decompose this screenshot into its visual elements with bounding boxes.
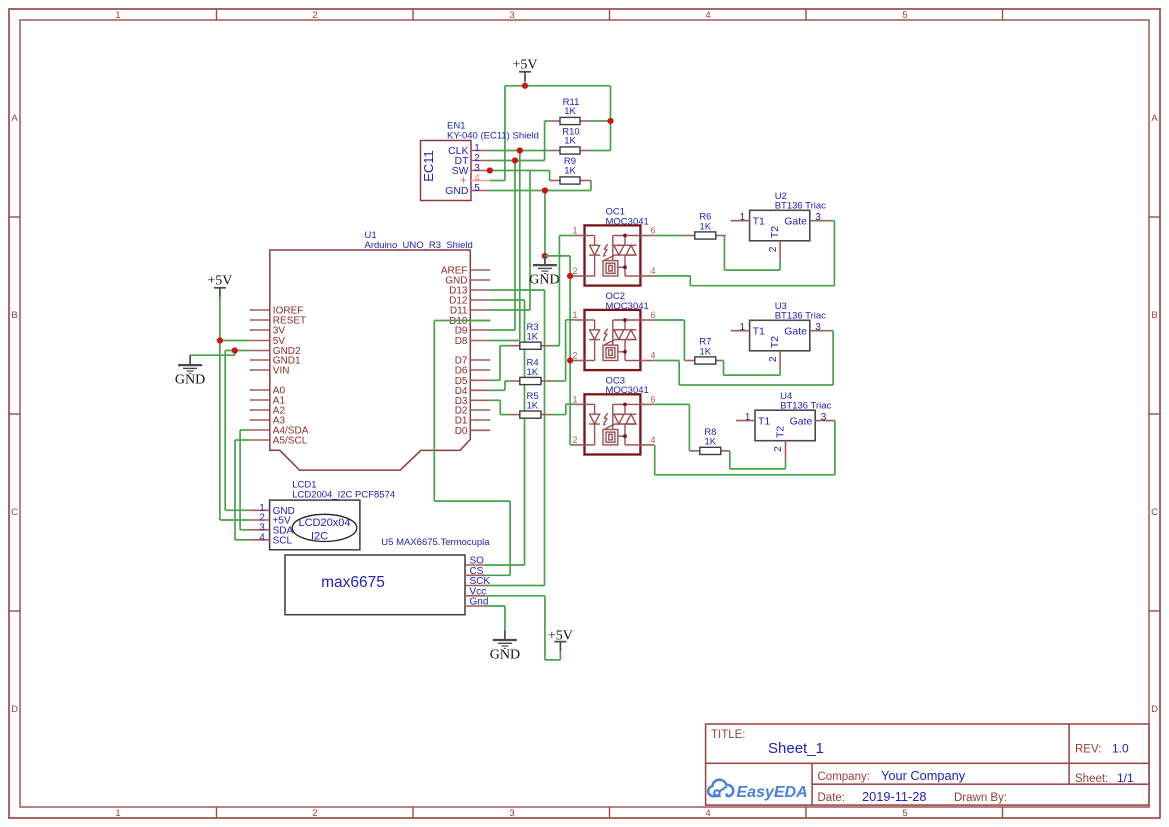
svg-text:+5V: +5V — [512, 58, 537, 73]
junction dot OC2 pin2 — [567, 357, 573, 363]
wire Gnd to ground — [485, 606, 505, 631]
junction dot OC1 pin2 — [567, 273, 573, 279]
svg-text:4: 4 — [651, 266, 656, 276]
svg-text:GND: GND — [529, 273, 559, 288]
svg-text:1K: 1K — [564, 136, 576, 147]
OC3 pin numbers — [573, 394, 656, 445]
svg-text:GND: GND — [490, 648, 520, 663]
svg-text:D0: D0 — [455, 426, 468, 437]
wire A5/SCL to LCD — [235, 440, 250, 540]
wire OC1 pin6 to R6 — [654, 235, 685, 237]
svg-text:5: 5 — [474, 183, 480, 194]
svg-text:4: 4 — [705, 10, 710, 21]
wire CLK row to R10 — [490, 151, 550, 341]
svg-text:C: C — [11, 507, 18, 518]
svg-text:Drawn By:: Drawn By: — [954, 792, 1007, 804]
svg-text:1K: 1K — [699, 346, 711, 357]
wire OC3 pin4 to U4 gate — [655, 421, 835, 475]
svg-text:3: 3 — [509, 808, 514, 819]
ground symbol (bottom) — [490, 631, 520, 663]
wire OC2 pin6 to R7 — [654, 320, 684, 361]
title block frame — [706, 724, 1149, 805]
svg-text:1K: 1K — [564, 166, 576, 177]
EC11 pin numbers — [474, 143, 480, 194]
resistor R4 — [510, 377, 566, 384]
triac U3 BT136 — [731, 320, 830, 369]
svg-text:1K: 1K — [564, 106, 576, 117]
svg-text:EC11: EC11 — [421, 150, 436, 182]
resistor R10 — [550, 147, 611, 154]
svg-text:Arduino_UNO_R3_Shield: Arduino_UNO_R3_Shield — [365, 240, 473, 251]
svg-text:4: 4 — [259, 532, 265, 543]
optocoupler OC1 MOC3041 — [575, 225, 655, 285]
power +5V symbol (left of U1) — [207, 274, 232, 298]
svg-text:1K: 1K — [527, 401, 539, 412]
svg-text:T2: T2 — [769, 336, 781, 348]
junction dot 5V pin — [217, 337, 223, 343]
svg-text:1K: 1K — [527, 332, 539, 343]
svg-text:4: 4 — [705, 808, 710, 819]
optocoupler OC3 MOC3041 — [575, 394, 655, 454]
LCD1 ellipse — [292, 514, 357, 541]
svg-text:LCD20x04: LCD20x04 — [299, 517, 351, 529]
svg-text:REV:: REV: — [1075, 744, 1101, 756]
svg-text:C: C — [1151, 507, 1158, 518]
svg-text:GND: GND — [175, 373, 205, 388]
svg-text:2: 2 — [573, 351, 578, 361]
svg-text:TITLE:: TITLE: — [711, 729, 746, 741]
U1 right pin stubs — [470, 270, 490, 430]
svg-text:2: 2 — [573, 435, 578, 445]
wire R4 to OC2 pin1 — [566, 320, 575, 381]
svg-text:1/1: 1/1 — [1117, 771, 1134, 785]
svg-text:Your Company: Your Company — [881, 768, 966, 783]
junction dot EC11 GND — [542, 187, 548, 193]
svg-text:Sheet:: Sheet: — [1075, 773, 1108, 785]
wire SW row to R9 — [490, 171, 550, 311]
svg-text:MOC3041: MOC3041 — [606, 385, 649, 396]
svg-text:Date:: Date: — [818, 792, 846, 804]
wire A4/SDA to LCD — [240, 430, 250, 530]
ground symbol (left of U1) — [175, 355, 205, 387]
component LCD1 box — [270, 500, 360, 550]
wire R8 to U4 T2 — [730, 451, 786, 469]
svg-text:4: 4 — [651, 435, 656, 445]
wire EC11 GND row — [490, 181, 591, 256]
svg-text:1: 1 — [740, 322, 746, 333]
U5 pin stubs — [465, 565, 485, 606]
svg-text:BT136 Triac: BT136 Triac — [780, 401, 831, 412]
wire CS row — [485, 574, 510, 576]
svg-text:1: 1 — [740, 212, 746, 223]
wire R3 to OC1 pin1 — [559, 236, 574, 346]
wire R6 to U2 T2 — [724, 236, 780, 271]
frame column ticks bottom — [217, 807, 1003, 818]
wire Vcc to +5V — [485, 596, 560, 660]
svg-text:1K: 1K — [699, 221, 711, 232]
svg-text:I2C: I2C — [311, 531, 328, 543]
wire SCK row — [485, 585, 545, 587]
wire R5 to OC3 pin1 — [566, 404, 575, 414]
svg-text:D11: D11 — [450, 306, 468, 317]
resistor R3 — [510, 342, 560, 349]
junction dot +5V rail — [522, 83, 528, 89]
svg-text:2: 2 — [312, 10, 317, 21]
svg-text:Gate: Gate — [790, 416, 813, 428]
svg-text:6: 6 — [651, 226, 656, 236]
frame row letters left — [11, 113, 18, 715]
resistor R6 — [685, 232, 726, 239]
wire OC3 pin6 to R8 — [654, 404, 689, 451]
svg-text:2: 2 — [573, 266, 578, 276]
svg-text:Sheet_1: Sheet_1 — [768, 740, 824, 757]
EC11 pin stubs — [471, 151, 490, 191]
svg-text:BT136 Triac: BT136 Triac — [775, 201, 826, 212]
junction dot SW — [487, 167, 493, 173]
svg-text:2019-11-28: 2019-11-28 — [862, 789, 927, 804]
U1 left pin names — [273, 306, 309, 447]
svg-text:3: 3 — [509, 10, 514, 21]
svg-text:EasyEDA: EasyEDA — [737, 784, 808, 801]
svg-text:U5 MAX6675.Termocupla: U5 MAX6675.Termocupla — [381, 537, 490, 548]
wire D5 to R3 — [490, 346, 510, 381]
svg-text:3: 3 — [821, 412, 827, 423]
svg-text:D9: D9 — [455, 326, 468, 337]
frame row ticks right — [1149, 217, 1160, 611]
svg-text:3: 3 — [815, 212, 821, 223]
svg-text:MOC3041: MOC3041 — [606, 301, 649, 312]
svg-text:A5/SCL: A5/SCL — [273, 436, 308, 447]
triac U4 BT136 — [736, 410, 835, 459]
frame column ticks top — [217, 9, 1003, 20]
wire SO row — [485, 564, 525, 566]
resistor R7 — [684, 357, 723, 364]
frame row ticks left — [9, 217, 20, 611]
U1 right pin names — [441, 266, 468, 437]
junction dot CLK — [517, 147, 523, 153]
svg-text:5: 5 — [902, 808, 907, 819]
svg-text:2: 2 — [773, 446, 784, 452]
junction dot R11 right — [607, 118, 613, 124]
svg-text:1K: 1K — [527, 367, 539, 378]
svg-text:1: 1 — [745, 412, 751, 423]
wire D10 to CS — [434, 321, 510, 576]
ground symbol (near OC1) — [529, 256, 559, 288]
wire D3 to R5 — [490, 400, 510, 414]
wire GND2 net — [190, 351, 250, 511]
svg-text:GND: GND — [445, 185, 469, 197]
svg-text:+5V: +5V — [207, 274, 232, 289]
junction dot DT — [512, 157, 518, 163]
triac U2 BT136 — [731, 210, 830, 259]
svg-text:D: D — [1151, 704, 1158, 715]
optocoupler OC2 MOC3041 — [575, 310, 655, 370]
OC1 pin numbers — [573, 226, 656, 277]
wire D13 to SCK — [490, 290, 544, 586]
svg-text:B: B — [11, 310, 17, 321]
svg-text:T2: T2 — [775, 426, 787, 438]
resistor R9 — [550, 177, 591, 184]
frame row letters right — [1151, 113, 1158, 715]
svg-text:D: D — [11, 704, 18, 715]
svg-text:T1: T1 — [753, 326, 765, 338]
svg-text:Gate: Gate — [784, 216, 807, 228]
svg-text:3: 3 — [815, 322, 821, 333]
resistor R11 — [545, 117, 611, 124]
wire D4 to R4 — [490, 381, 510, 390]
wire +5V left rail down to LCD — [220, 297, 250, 520]
svg-text:1: 1 — [573, 226, 578, 236]
svg-text:1K: 1K — [704, 437, 716, 448]
wire DT row to R11 vertical — [490, 121, 545, 330]
svg-text:1: 1 — [115, 10, 120, 21]
svg-text:T2: T2 — [769, 226, 781, 238]
OC2 pin numbers — [573, 310, 656, 361]
svg-text:T1: T1 — [753, 216, 765, 228]
svg-text:A: A — [1151, 113, 1158, 124]
svg-text:MOC3041: MOC3041 — [606, 216, 649, 227]
wire R7 to U3 T2 — [724, 361, 781, 376]
svg-text:VIN: VIN — [273, 366, 290, 377]
frame column numbers top — [115, 10, 907, 21]
LCD1 pin numbers — [259, 503, 265, 544]
svg-text:2: 2 — [768, 356, 779, 362]
svg-text:BT136 Triac: BT136 Triac — [775, 311, 826, 322]
wire OC2 pin4 to U3 gate — [654, 331, 833, 385]
resistor R8 — [689, 447, 729, 454]
junction dot GND rail top — [542, 253, 548, 259]
svg-text:3V: 3V — [273, 326, 286, 337]
wire D12 to SO — [490, 300, 524, 565]
EC11 pin 4 stub (highlighted) — [471, 180, 490, 182]
wire OC1 pin4 to U2 gate — [654, 221, 834, 286]
power +5V symbol (top, above encoder) — [512, 58, 537, 82]
svg-text:6: 6 — [651, 310, 656, 320]
svg-text:A: A — [11, 113, 18, 124]
svg-text:KY-040 (EC11) Shield: KY-040 (EC11) Shield — [447, 131, 539, 142]
wire ground rail to optocoupler pin2 column — [545, 256, 575, 445]
U1 left pin stubs — [250, 310, 270, 440]
svg-text:D8: D8 — [455, 336, 468, 347]
svg-text:2: 2 — [312, 808, 317, 819]
junction dot GND2 — [232, 347, 238, 353]
svg-text:1.0: 1.0 — [1112, 742, 1129, 756]
svg-text:5: 5 — [902, 10, 907, 21]
component U5 max6675 box — [285, 555, 465, 615]
component U1 Arduino_UNO_R3_Shield box — [270, 250, 471, 470]
svg-text:4: 4 — [474, 173, 480, 184]
LCD1 pin stubs — [250, 510, 270, 540]
power +5V symbol (bottom) — [548, 629, 573, 652]
svg-text:4: 4 — [651, 351, 656, 361]
EasyEDA logo cloud — [708, 780, 733, 796]
svg-text:1: 1 — [573, 394, 578, 404]
svg-text:T1: T1 — [758, 416, 770, 428]
frame column numbers bottom — [115, 808, 907, 819]
svg-text:Gate: Gate — [784, 326, 807, 338]
component EN1 KY-040 (EC11) encoder box — [421, 141, 472, 201]
wire +5V rail top — [490, 81, 611, 181]
svg-text:Company:: Company: — [818, 771, 870, 783]
svg-text:max6675: max6675 — [321, 574, 385, 591]
svg-text:2: 2 — [768, 246, 779, 252]
resistor R5 — [510, 411, 566, 418]
svg-text:1: 1 — [115, 808, 120, 819]
svg-text:LCD2004_I2C PCF8574: LCD2004_I2C PCF8574 — [292, 490, 395, 501]
svg-text:6: 6 — [651, 394, 656, 404]
svg-text:B: B — [1151, 310, 1157, 321]
svg-text:SCL: SCL — [273, 535, 293, 546]
svg-text:1: 1 — [573, 310, 578, 320]
